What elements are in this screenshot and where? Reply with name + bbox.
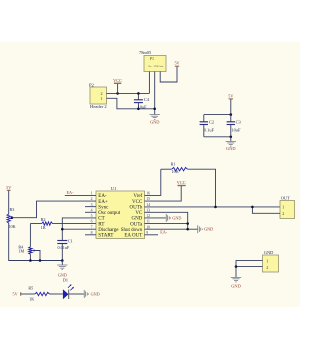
- svg-text:1: 1: [101, 96, 103, 101]
- power port 5V above C3: [228, 93, 233, 114]
- svg-text:GND: GND: [231, 283, 241, 288]
- wire P2 pin2 to VCC rail: [107, 92, 150, 94]
- svg-text:P2: P2: [89, 82, 95, 87]
- svg-text:0.01uF: 0.01uF: [58, 245, 70, 250]
- wire U1 pin15 VCC: [145, 186, 182, 201]
- potentiometer R4 1M: [18, 224, 32, 261]
- svg-text:4: 4: [91, 208, 93, 212]
- svg-text:1: 1: [282, 205, 284, 210]
- svg-text:C2: C2: [209, 119, 214, 124]
- svg-text:EA-: EA-: [160, 230, 168, 235]
- wire U1 pin11 OUTa: [145, 223, 188, 225]
- node GND connector junction: [235, 265, 238, 268]
- svg-text:Vref: Vref: [133, 194, 142, 199]
- connector P2 (Header 2): [89, 82, 107, 109]
- svg-text:CT: CT: [98, 217, 104, 222]
- wire U1 pin10 Shutdown: [145, 228, 198, 230]
- ground symbol under P1: [150, 115, 160, 125]
- svg-text:GND: GND: [226, 146, 236, 151]
- wire U1 pin13 VC down: [145, 212, 188, 229]
- wire R3 bottom to ground rail: [9, 223, 63, 261]
- svg-text:U1: U1: [111, 186, 117, 191]
- svg-text:GND: GND: [204, 226, 213, 231]
- svg-text:11: 11: [146, 220, 150, 224]
- capacitor C2 0.1uF: [200, 115, 215, 137]
- svg-text:GND: GND: [264, 250, 274, 255]
- resistor R1 10K: [161, 161, 188, 174]
- svg-text:GND: GND: [154, 66, 159, 68]
- svg-text:15: 15: [146, 197, 150, 201]
- resistor R5 1K: [28, 285, 49, 301]
- connector OUT: [280, 196, 295, 219]
- wire C2/C3 bottom rail: [204, 136, 231, 138]
- svg-text:OUTa: OUTa: [130, 222, 143, 227]
- svg-text:1M: 1M: [18, 249, 24, 254]
- svg-text:1K: 1K: [29, 296, 34, 301]
- svg-text:10uF: 10uF: [231, 127, 241, 132]
- svg-text:5: 5: [91, 214, 93, 218]
- svg-text:5V: 5V: [6, 185, 11, 190]
- node pin7/CT junction: [61, 228, 64, 231]
- node C3 top junction: [230, 113, 233, 116]
- power port 5V at P1 output: [174, 61, 179, 67]
- svg-text:6: 6: [91, 220, 93, 224]
- svg-text:OUT: OUT: [281, 196, 290, 201]
- node pin10 junction: [186, 228, 189, 231]
- svg-text:R5: R5: [28, 285, 33, 290]
- svg-text:GND: GND: [172, 215, 181, 220]
- svg-text:R1: R1: [171, 161, 176, 166]
- ground symbol bottom right: [231, 267, 241, 289]
- svg-text:EA-: EA-: [67, 190, 75, 195]
- node R3 wiper: [11, 216, 14, 219]
- wire R5 to D1: [50, 293, 63, 295]
- svg-text:10: 10: [146, 225, 150, 229]
- wire OUT pin2: [252, 207, 280, 213]
- svg-text:GND: GND: [91, 292, 100, 297]
- wire P1 input pin: [148, 72, 150, 94]
- ground symbol at LED: [84, 290, 99, 298]
- svg-text:12: 12: [146, 214, 150, 218]
- wire P1 output to 5V: [160, 67, 177, 82]
- svg-text:7: 7: [91, 225, 93, 229]
- svg-text:VCC: VCC: [132, 200, 143, 205]
- svg-text:Vout: Vout: [159, 66, 163, 68]
- svg-text:2: 2: [282, 211, 284, 216]
- svg-text:16: 16: [146, 192, 150, 196]
- ground symbol at pin12: [166, 214, 181, 222]
- node OUT junction: [251, 206, 254, 209]
- svg-text:Discharge: Discharge: [98, 228, 119, 233]
- wire U1 pin4 stub: [85, 211, 96, 213]
- wire GND connector pin1: [236, 261, 263, 267]
- svg-text:2: 2: [91, 197, 93, 201]
- wire C2/C3 top rail: [204, 114, 231, 116]
- node R4 wiper bottom: [39, 259, 42, 262]
- node VCC junction at P2: [116, 92, 119, 95]
- wire R3 wiper to U1 pin2: [12, 201, 96, 218]
- node C1 bottom junction: [61, 259, 64, 262]
- svg-text:5V: 5V: [228, 93, 233, 98]
- svg-text:EA+: EA+: [98, 200, 108, 205]
- node R1/output junction: [214, 206, 217, 209]
- svg-text:Header 2: Header 2: [90, 104, 107, 109]
- power port VCC (top): [113, 78, 122, 94]
- svg-text:8: 8: [91, 231, 93, 235]
- svg-text:3: 3: [91, 203, 93, 207]
- node C4 bottom junction: [137, 108, 140, 111]
- svg-text:P1: P1: [150, 56, 154, 61]
- svg-text:78m05: 78m05: [139, 50, 152, 55]
- schematic sheet: [0, 42, 300, 307]
- wire U1 pin14 OUTb to OUT connector: [145, 206, 281, 208]
- svg-text:9: 9: [146, 231, 148, 235]
- wire P2 pin1 to ground rail: [107, 98, 155, 109]
- wire U1 pin5 CT down: [62, 218, 96, 240]
- wire R4 wiper to ground rail: [32, 249, 40, 260]
- svg-text:C3: C3: [236, 119, 242, 124]
- capacitor C4 10uF: [134, 93, 150, 109]
- wire R1 to output net: [188, 169, 216, 207]
- svg-text:RT: RT: [98, 222, 104, 227]
- svg-text:0.1uF: 0.1uF: [204, 127, 215, 132]
- power port VCC at pin15: [177, 180, 186, 185]
- LED D1: [63, 278, 74, 300]
- node P1 ground junction: [153, 108, 156, 111]
- svg-text:Osc output: Osc output: [98, 211, 120, 216]
- svg-text:10K: 10K: [8, 224, 15, 229]
- svg-text:EA OUT: EA OUT: [124, 234, 142, 239]
- regulator P1 78m05: [139, 50, 166, 71]
- svg-text:D1: D1: [63, 278, 68, 283]
- node pin11 junction: [186, 222, 189, 225]
- svg-text:VCC: VCC: [113, 78, 122, 83]
- wire U1 pin7 Discharge: [62, 228, 96, 230]
- wire U1 pin3 stub: [85, 206, 96, 208]
- svg-text:1: 1: [266, 258, 268, 263]
- wire GND connector pin2: [236, 266, 263, 268]
- svg-text:START: START: [98, 234, 113, 239]
- power port 5V at LED row: [13, 291, 35, 296]
- svg-text:Sync: Sync: [98, 205, 109, 210]
- node R4 bottom: [29, 259, 32, 262]
- node C4 top junction: [137, 92, 140, 95]
- ground symbol at pin10: [198, 225, 213, 233]
- svg-text:EA-: EA-: [98, 194, 107, 199]
- svg-text:R3: R3: [10, 207, 15, 212]
- wire U1 pin16 Vref to R1: [145, 169, 161, 195]
- svg-text:1K: 1K: [41, 225, 46, 230]
- power port 5V top left: [6, 185, 11, 214]
- potentiometer R3 10K: [7, 207, 16, 229]
- svg-text:C1: C1: [68, 239, 73, 244]
- svg-text:Shut down: Shut down: [121, 228, 143, 233]
- svg-text:VCC: VCC: [177, 180, 186, 185]
- wire P1 ground pin: [154, 72, 156, 115]
- svg-text:10K: 10K: [172, 169, 179, 174]
- connector GND (bottom right): [263, 250, 279, 272]
- svg-text:OUTb: OUTb: [130, 205, 143, 210]
- svg-text:VC: VC: [135, 211, 143, 216]
- svg-text:1: 1: [91, 192, 93, 196]
- svg-text:Vin: Vin: [148, 66, 151, 68]
- op-amp U1 PWM controller: [91, 186, 151, 238]
- wire U1 pin9 EA OUT stub: [145, 234, 159, 236]
- wire U1 pin12 GND stub: [145, 217, 166, 219]
- capacitor C1 0.01uF: [57, 239, 72, 261]
- wire U1 pin8 stub: [85, 234, 96, 236]
- ground symbol below C1: [57, 261, 67, 278]
- wire D1 to ground: [69, 293, 84, 295]
- svg-text:GND: GND: [150, 119, 160, 124]
- svg-text:5V: 5V: [174, 61, 179, 66]
- wire U1 pin1 EA- net: [65, 194, 96, 196]
- svg-text:GND: GND: [58, 272, 67, 277]
- resistor R2 1K: [30, 217, 52, 230]
- capacitor C3 10uF: [227, 115, 242, 137]
- svg-text:14: 14: [146, 203, 150, 207]
- wire R2 to U1 pin6: [53, 223, 97, 225]
- svg-text:5V: 5V: [13, 291, 18, 296]
- svg-text:13: 13: [146, 208, 150, 212]
- ground symbol under C2/C3: [226, 137, 236, 151]
- svg-text:2: 2: [266, 265, 268, 270]
- node C3 bottom junction: [230, 136, 233, 139]
- svg-text:GND: GND: [131, 217, 142, 222]
- svg-text:C4: C4: [144, 97, 150, 102]
